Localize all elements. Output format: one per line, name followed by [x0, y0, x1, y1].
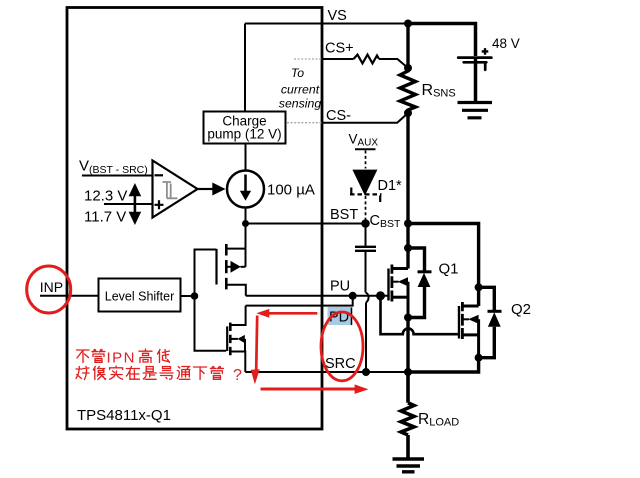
wire Q2 drain feed	[408, 224, 479, 288]
svg-text:Q1: Q1	[439, 261, 459, 278]
高	[139, 349, 152, 363]
svg-text:11.7 V: 11.7 V	[84, 209, 126, 226]
Q1 body diode	[408, 248, 425, 272]
wire main bus RSNS to Q1	[406, 113, 409, 248]
svg-text:RSNS: RSNS	[422, 82, 456, 100]
svg-text:Q2: Q2	[511, 301, 531, 318]
svg-text:CS-: CS-	[326, 108, 351, 124]
capacitor CBST	[365, 224, 367, 247]
battery 48V	[458, 56, 491, 59]
wire charge pump to current source	[245, 144, 247, 171]
好	[76, 367, 89, 380]
internal FET M2 pull-down: gate lead	[195, 296, 227, 351]
threshold down arrow	[134, 204, 137, 213]
node BST-CBST junction	[361, 219, 370, 228]
wire battery to ground	[474, 58, 478, 101]
red annotations	[27, 266, 369, 394]
管	[92, 350, 105, 363]
plus sign	[482, 48, 489, 55]
Q1 drain from bus	[406, 248, 409, 269]
node RSNS bottom	[404, 109, 412, 117]
wire VS to battery (thick)	[408, 24, 476, 57]
node gate branch	[376, 291, 385, 300]
red arrow left	[269, 312, 318, 315]
current source I1 100uA	[227, 171, 264, 208]
transistor Q2	[477, 287, 480, 306]
threshold up arrow	[134, 195, 137, 204]
Q1 source stub	[392, 296, 408, 299]
Q1 channel segments	[390, 265, 393, 302]
comparator minus input mark	[155, 174, 164, 176]
svg-text:SRC: SRC	[325, 356, 356, 372]
node SRC-RLOAD	[404, 368, 412, 376]
resistor sense filter	[354, 55, 380, 64]
svg-text:pump (12 V): pump (12 V)	[207, 127, 281, 142]
是	[143, 367, 156, 380]
resistor RSNS	[400, 24, 416, 114]
wire VS internal	[245, 23, 408, 25]
wire SRC to Q2 source	[408, 358, 479, 372]
wire comparator plus input	[104, 203, 153, 205]
M2 body arrow (N-ch)	[231, 338, 238, 340]
M1 channel segments	[225, 244, 228, 289]
M1 gate bar	[215, 249, 217, 285]
svg-text:PU: PU	[330, 278, 350, 294]
resistor RLOAD	[401, 372, 414, 458]
text cursor	[351, 308, 353, 326]
node PD-PU tie	[349, 292, 357, 300]
wire PD	[246, 296, 353, 306]
低	[158, 350, 170, 363]
wire current source to BST node	[245, 208, 247, 224]
svg-text:INP: INP	[40, 279, 63, 295]
svg-text:TPS4811x-Q1: TPS4811x-Q1	[77, 407, 171, 424]
wire comparator minus input	[82, 175, 153, 177]
wire level shifter output	[181, 295, 195, 297]
red circle around INP	[27, 266, 71, 313]
Q2 drain stub	[463, 305, 479, 308]
node level shifter output	[191, 292, 199, 300]
M1 body arrow (P-ch)	[227, 266, 231, 268]
svg-text:48 V: 48 V	[492, 36, 520, 51]
red ellipse around PD/SRC	[321, 312, 363, 381]
wire BST	[246, 223, 366, 225]
Q2 body diode	[479, 287, 495, 311]
M2 source stub	[231, 352, 245, 373]
node VS junction	[404, 20, 412, 28]
wire CS+	[322, 58, 354, 60]
node BST junction internal	[242, 220, 249, 227]
Q1 drain stub	[392, 267, 408, 270]
wire SRC	[245, 371, 408, 373]
M2 drain stub to PD	[231, 306, 246, 325]
ground battery	[458, 103, 493, 118]
svg-text:RLOAD: RLOAD	[418, 411, 459, 429]
node Q1 source	[404, 314, 412, 322]
svg-text:sensing: sensing	[279, 97, 322, 111]
charge pump U-CP	[204, 112, 286, 144]
M1 source stub	[227, 248, 246, 250]
svg-text:IPN: IPN	[107, 350, 137, 367]
Q2 source stub	[463, 333, 479, 336]
svg-text:CBST: CBST	[370, 213, 401, 230]
M1 drain stub to PU	[227, 285, 246, 296]
red arrow right	[261, 388, 357, 391]
hysteresis symbol	[163, 182, 178, 198]
gray stub CS+ internal	[294, 58, 322, 60]
note To current sensing	[279, 66, 322, 111]
internal FET M1 pull-up: drain feed	[245, 224, 247, 249]
svg-text:Level Shifter: Level Shifter	[105, 290, 174, 304]
svg-text:100 µA: 100 µA	[267, 182, 315, 199]
wire INP input	[40, 295, 99, 297]
red arrow down	[256, 316, 257, 371]
comparator output arrow to current source	[198, 188, 214, 190]
gray stub CS- internal	[287, 122, 322, 124]
Q2 body arrow	[463, 318, 470, 320]
ground load	[393, 459, 425, 472]
wire gate branch to Q2 gate with hop	[381, 296, 460, 334]
Q1 body arrow	[392, 281, 399, 283]
svg-text:VAUX: VAUX	[349, 132, 379, 149]
red note line1: 不管IPN高低	[77, 350, 106, 363]
CBST wire jog over PU	[366, 293, 369, 303]
实	[110, 366, 123, 379]
node SRC-CBST	[362, 368, 370, 376]
M1 gate lead	[195, 250, 217, 297]
diode D1* (dashed, optional)	[365, 151, 367, 169]
level shifter box	[99, 279, 181, 312]
wire Q1 source to SRC	[406, 318, 409, 373]
导	[160, 367, 173, 380]
M2 gate bar	[226, 326, 228, 351]
node Q2 source	[475, 354, 483, 362]
Q1 gate bar	[387, 269, 389, 301]
像	[93, 367, 106, 380]
svg-text:VS: VS	[328, 8, 347, 24]
不	[77, 350, 90, 363]
wire CS-	[322, 113, 409, 123]
Q2 channel segments	[461, 302, 464, 339]
Q2 gate bar	[458, 306, 460, 339]
svg-text:D1*: D1*	[378, 178, 403, 194]
blue highlight on PD	[328, 307, 352, 325]
在	[126, 367, 139, 380]
node RSNS top	[404, 64, 412, 72]
svg-text:BST: BST	[330, 207, 358, 223]
comparator plus input mark	[155, 200, 164, 209]
svg-text:To: To	[291, 66, 304, 80]
svg-text:12.3 V: 12.3 V	[84, 188, 127, 205]
IC box TPS4811x-Q1	[67, 8, 322, 430]
wire internal vertical VS to charge pump	[244, 24, 246, 112]
wire PU	[246, 295, 389, 297]
svg-text:CS+: CS+	[325, 41, 354, 57]
M2 channel segments	[229, 323, 232, 356]
下	[194, 367, 207, 380]
通	[177, 367, 190, 380]
red note line2: 好像实在是导通下管？	[76, 366, 223, 380]
svg-text:?: ?	[233, 367, 242, 384]
comparator U-CMP	[153, 161, 198, 218]
管	[210, 367, 223, 380]
svg-text:current: current	[281, 83, 320, 97]
